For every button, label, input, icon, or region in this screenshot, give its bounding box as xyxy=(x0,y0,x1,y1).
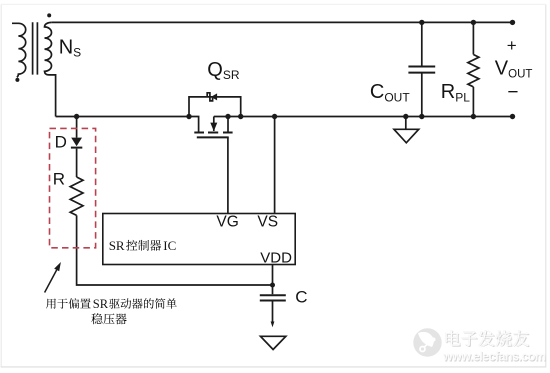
resistor R zigzag xyxy=(70,177,83,215)
annotation arrow shaft xyxy=(45,270,57,293)
svg-text:C: C xyxy=(295,287,307,306)
wire R bottom to VDD rail xyxy=(77,215,273,285)
resistor R_PL zigzag xyxy=(468,55,479,87)
node dot mid rail end xyxy=(510,114,515,119)
watermark logo xyxy=(413,328,441,356)
node dot D branch xyxy=(74,114,79,119)
svg-text:IC: IC xyxy=(163,238,176,253)
transformer T1 primary winding xyxy=(12,23,26,77)
wire mid rail right xyxy=(214,116,513,118)
transformer T1 secondary winding xyxy=(45,22,56,116)
node dot R_PL top xyxy=(471,20,476,25)
Q_SR mosfet channel plates xyxy=(194,132,232,134)
svg-text:−: − xyxy=(507,82,518,103)
ground GND2 triangle xyxy=(261,336,286,349)
svg-text:VS: VS xyxy=(257,213,278,230)
wire VDD lead from IC xyxy=(272,265,274,286)
IC U1 box xyxy=(103,214,295,265)
svg-text:R: R xyxy=(53,169,65,188)
ground GND1 triangle xyxy=(394,129,419,143)
Q_SR gate bar xyxy=(197,136,229,138)
transformer core xyxy=(33,22,38,74)
svg-text:D: D xyxy=(55,133,67,152)
wire VS lead xyxy=(274,117,276,214)
node dot C_OUT top xyxy=(419,20,424,25)
annotation text line 1 xyxy=(46,297,177,311)
Q_SR drain stub xyxy=(227,117,229,133)
diode D triangle xyxy=(71,138,82,147)
regulator dashed box xyxy=(50,128,96,247)
resistor R_PL lead top xyxy=(472,22,474,54)
Q_SR body stub xyxy=(213,117,215,132)
wire C to GND2 arrow tip xyxy=(271,322,275,328)
node dot VDD junction xyxy=(270,283,275,288)
node dot VS branch xyxy=(272,114,277,119)
svg-text:www.elecfans.com: www.elecfans.com xyxy=(442,350,546,364)
label SR controller IC xyxy=(109,238,177,253)
resistor R_PL lead bottom xyxy=(472,87,474,117)
svg-text:SR: SR xyxy=(93,297,109,311)
capacitor C_OUT plates xyxy=(408,67,435,73)
node dot transformer secondary top polarity xyxy=(47,13,51,17)
Q_SR body diode schottky bar xyxy=(207,93,212,101)
node dot top rail end xyxy=(510,20,515,25)
node dot Q_SR drain xyxy=(225,114,230,119)
wire mid rail left (to Q_SR source lead) xyxy=(56,117,199,133)
wire top rail xyxy=(52,21,513,23)
Q_SR body diode loop xyxy=(189,97,241,117)
node dot Q_SR left xyxy=(186,114,191,119)
ground GND1 stub xyxy=(405,117,407,130)
watermark url text xyxy=(442,350,547,365)
diode D cathode bar xyxy=(71,147,82,149)
svg-text:VG: VG xyxy=(216,213,238,230)
node dot C_OUT bottom xyxy=(419,114,424,119)
node dot diode loop right xyxy=(238,114,243,119)
annotation arrow head xyxy=(54,262,61,271)
capacitor C plates xyxy=(260,295,286,300)
node dot transformer primary bottom polarity xyxy=(15,78,19,82)
node dot GND1 branch xyxy=(403,114,408,119)
capacitor C_OUT leads xyxy=(421,22,423,116)
watermark brand text xyxy=(446,330,530,347)
svg-text:+: + xyxy=(507,36,517,55)
Q_SR body diode triangle xyxy=(211,93,217,100)
svg-text:SR: SR xyxy=(109,238,125,253)
capacitor C leads xyxy=(272,285,274,322)
annotation text line 2 xyxy=(91,313,126,324)
node dot R_PL bottom xyxy=(471,114,476,119)
Q_SR body arrow xyxy=(210,123,217,132)
wire D branch down from node xyxy=(76,117,78,178)
svg-text:VDD: VDD xyxy=(260,249,292,266)
wire VG lead xyxy=(227,137,229,213)
